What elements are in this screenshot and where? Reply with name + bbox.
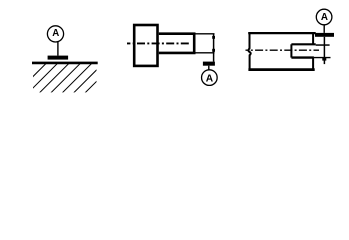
- svg-text:A: A: [52, 28, 59, 39]
- svg-text:A: A: [206, 73, 214, 84]
- svg-text:A: A: [321, 12, 328, 23]
